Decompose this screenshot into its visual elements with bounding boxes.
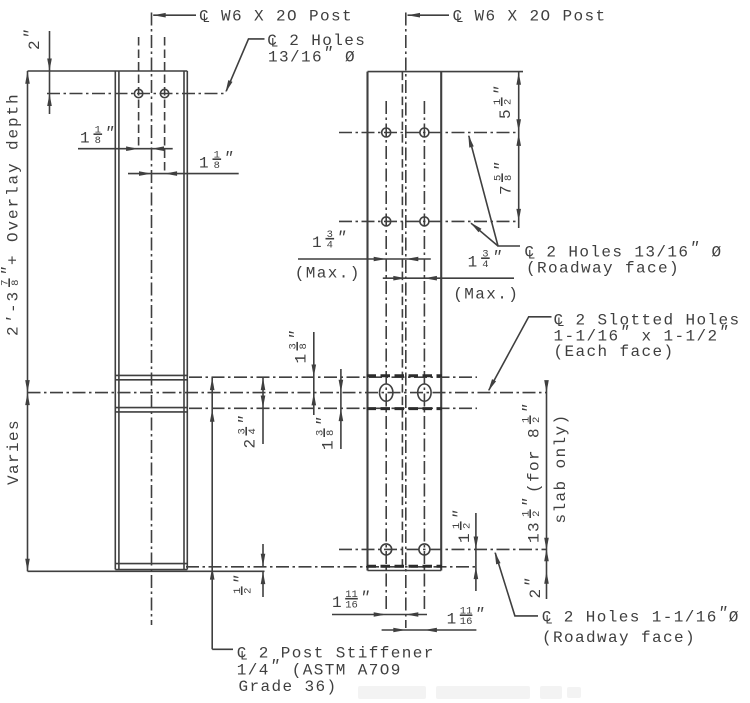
svg-text:": " <box>237 414 255 425</box>
svg-text:slab only): slab only) <box>552 413 570 523</box>
svg-text:8: 8 <box>503 175 515 181</box>
svg-text:": " <box>360 589 371 607</box>
svg-text:13/16" Ø: 13/16" Ø <box>268 44 356 66</box>
svg-text:8: 8 <box>10 280 22 286</box>
svg-text:2: 2 <box>462 523 474 529</box>
svg-text:": " <box>451 508 469 519</box>
svg-text:13: 13 <box>526 521 544 543</box>
svg-text:": " <box>232 573 250 584</box>
svg-text:16: 16 <box>460 616 473 628</box>
svg-text:": " <box>337 229 348 247</box>
svg-text:1: 1 <box>332 594 343 612</box>
svg-text:+ Overlay depth: + Overlay depth <box>5 92 23 265</box>
svg-text:2: 2 <box>531 417 543 423</box>
svg-text:": " <box>521 402 539 413</box>
svg-text:": " <box>492 249 503 267</box>
svg-text:4: 4 <box>327 240 333 252</box>
svg-text:1: 1 <box>293 352 311 363</box>
svg-text:": " <box>288 329 306 340</box>
svg-text:(Roadway face): (Roadway face) <box>526 259 680 277</box>
svg-text:2: 2 <box>242 437 260 448</box>
svg-text:8: 8 <box>214 160 220 172</box>
svg-text:": " <box>105 125 116 143</box>
svg-text:5: 5 <box>497 108 515 119</box>
svg-text:": " <box>475 606 486 624</box>
svg-text:8: 8 <box>325 430 337 436</box>
svg-text:": " <box>224 150 235 168</box>
svg-text:2 Holes 1-1/16"Ø: 2 Holes 1-1/16"Ø <box>564 605 740 627</box>
svg-text:(Each face): (Each face) <box>554 343 675 361</box>
svg-text:(Roadway face): (Roadway face) <box>542 629 696 647</box>
svg-text:1/4" (ASTM A7O9: 1/4" (ASTM A7O9 <box>237 658 402 680</box>
svg-text:1-1/16" x 1-1/2": 1-1/16" x 1-1/2" <box>554 323 730 345</box>
svg-text:": " <box>0 265 18 276</box>
svg-text:2: 2 <box>503 99 515 105</box>
svg-text:2: 2 <box>243 588 255 594</box>
svg-text:1: 1 <box>456 532 474 543</box>
svg-text:Grade 36): Grade 36) <box>239 678 338 696</box>
svg-text:W6 X 2O Post: W6 X 2O Post <box>475 7 607 25</box>
svg-text:1: 1 <box>80 130 91 148</box>
svg-text:(Max.): (Max.) <box>453 286 519 304</box>
svg-text:8: 8 <box>298 343 310 349</box>
svg-text:": " <box>492 84 510 95</box>
svg-text:2: 2 <box>531 511 543 517</box>
svg-text:": " <box>493 160 511 171</box>
svg-text:1: 1 <box>199 155 210 173</box>
svg-text:1: 1 <box>312 234 323 252</box>
svg-text:7: 7 <box>498 184 516 195</box>
svg-text:(for 8: (for 8 <box>526 427 544 493</box>
svg-text:4: 4 <box>247 428 259 434</box>
svg-text:": " <box>315 415 333 426</box>
svg-text:16: 16 <box>345 600 358 612</box>
svg-text:2'-3: 2'-3 <box>5 290 23 336</box>
svg-text:1: 1 <box>468 254 479 272</box>
svg-text:8: 8 <box>95 135 101 147</box>
svg-text:1: 1 <box>447 611 458 629</box>
svg-text:Varies: Varies <box>5 419 23 485</box>
svg-text:(Max.): (Max.) <box>295 265 361 283</box>
svg-text:": " <box>521 496 539 507</box>
svg-text:2 Post Stiffener: 2 Post Stiffener <box>259 645 435 663</box>
svg-text:1: 1 <box>320 439 338 450</box>
svg-text:W6 X 2O Post: W6 X 2O Post <box>221 7 353 25</box>
svg-text:4: 4 <box>482 259 488 271</box>
